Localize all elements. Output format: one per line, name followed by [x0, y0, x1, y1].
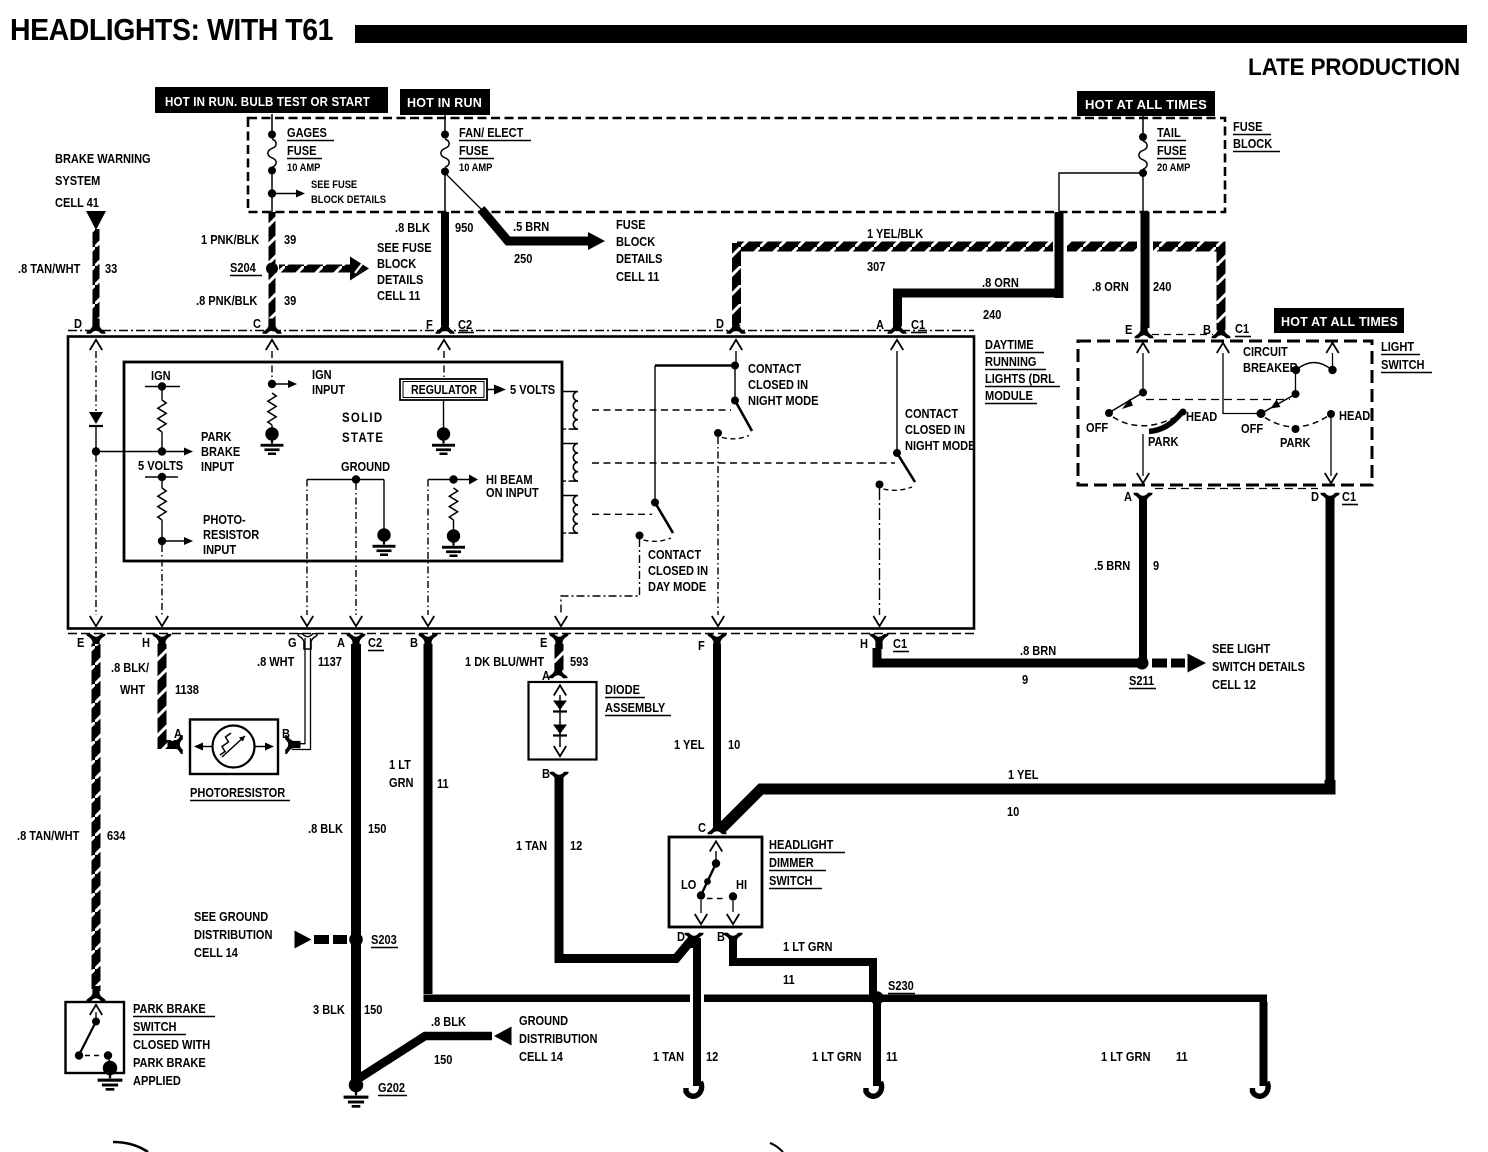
node: IGN	[158, 382, 166, 390]
resistor: park brake pull-up	[158, 400, 166, 432]
terminal B (dimmer bottom)	[723, 933, 742, 948]
svg-text:INPUT: INPUT	[312, 382, 346, 397]
arrow up at terminal C	[266, 340, 278, 350]
svg-text:39: 39	[284, 293, 297, 308]
svg-text:HEADLIGHTS: WITH T61: HEADLIGHTS: WITH T61	[10, 12, 333, 47]
svg-text:S204: S204	[230, 260, 256, 275]
label: 1 LT GRN 11 (right)	[1101, 1049, 1188, 1064]
svg-text:REGULATOR: REGULATOR	[411, 382, 477, 397]
svg-text:10 AMP: 10 AMP	[287, 162, 321, 174]
arrow down to terminal H	[156, 616, 168, 626]
terminal B (module bottom)	[418, 634, 437, 649]
wire: hi beam bus	[428, 479, 469, 481]
svg-text:DAY MODE: DAY MODE	[648, 579, 706, 594]
terminal A (diode assembly)	[548, 663, 567, 678]
svg-text:11: 11	[1176, 1049, 1188, 1064]
wire: D to junction	[735, 351, 737, 363]
splice S211	[1136, 657, 1149, 670]
svg-text:.5 BRN: .5 BRN	[513, 219, 549, 234]
node: ground	[352, 475, 360, 483]
svg-text:C: C	[253, 316, 261, 331]
svg-text:593: 593	[570, 654, 589, 669]
label: 1 YEL 10 (feed)	[1007, 767, 1038, 819]
svg-text:C: C	[698, 820, 706, 835]
arrow: regulator 5 volts out	[487, 385, 506, 395]
svg-text:OFF: OFF	[1086, 420, 1108, 435]
wire: regulator feed dash-dot	[443, 351, 445, 378]
arrow down to terminal H C1	[873, 616, 885, 626]
wire: 1 TAN 12 diode to dimmer D	[559, 778, 694, 959]
link: coil1 to night switch (dashed)	[592, 409, 731, 411]
wire: 1 LT GRN 11 below S230	[873, 1002, 881, 1086]
switch: night mode relay contact 1	[714, 397, 752, 439]
svg-text:ON INPUT: ON INPUT	[486, 485, 539, 500]
terminal G (module bottom, open)	[298, 634, 317, 649]
ground: park brake switch	[98, 1061, 123, 1091]
svg-text:HI: HI	[736, 877, 747, 892]
label: .8 ORN 240 (to A)	[982, 275, 1019, 322]
svg-text:SEE GROUND: SEE GROUND	[194, 909, 268, 924]
label: TAIL FUSE 20 AMP	[1157, 125, 1191, 174]
arrow down to terminal E	[90, 616, 102, 626]
label: 1 TAN 12 (down)	[653, 1049, 719, 1064]
svg-text:HEADLIGHT: HEADLIGHT	[769, 837, 834, 852]
svg-text:1 TAN: 1 TAN	[516, 838, 547, 853]
label: .8 ORN 240 (to E)	[1092, 279, 1172, 294]
svg-text:950: 950	[455, 220, 474, 235]
terminal C (module top)	[262, 319, 281, 334]
svg-text:11: 11	[437, 776, 449, 791]
svg-text:E: E	[77, 635, 84, 650]
svg-text:CLOSED IN: CLOSED IN	[748, 377, 808, 392]
wire: regulator to ground	[443, 400, 445, 429]
wire: dimmer B to S230	[733, 938, 873, 998]
svg-text:H: H	[142, 635, 150, 650]
label: PARK BRAKE SWITCH CLOSED WITH PARK BRAKE APPLIED	[133, 1001, 215, 1088]
svg-text:D: D	[1311, 489, 1319, 504]
wire: .8 BLK 950	[441, 212, 449, 326]
svg-text:B: B	[282, 726, 290, 741]
label: 1 YEL 10	[674, 737, 741, 752]
svg-text:CLOSED IN: CLOSED IN	[648, 563, 708, 578]
photoresistor box	[190, 720, 278, 775]
svg-text:CLOSED WITH: CLOSED WITH	[133, 1037, 210, 1052]
svg-text:IGN: IGN	[312, 367, 332, 382]
wire: night contact 1 to terminal F dash-dot	[717, 437, 719, 615]
svg-text:1 TAN: 1 TAN	[653, 1049, 684, 1064]
splice S203	[349, 933, 363, 947]
arrow: S204 striped arrow	[279, 257, 369, 281]
wire: 1 YEL/BLK 307 horizontal (striped)	[737, 242, 1053, 252]
wire: 1 YEL 10 feed from light switch	[721, 780, 1330, 829]
wire: dashed link A to D (light switch bottom)	[1155, 488, 1318, 490]
fuse: GAGES FUSE 10 AMP	[268, 139, 276, 167]
link: coil2 to night switch 2 (dashed)	[592, 462, 895, 464]
wire: circuit breaker up	[1332, 353, 1334, 370]
light switch dashed box	[1078, 341, 1372, 485]
svg-text:1 LT GRN: 1 LT GRN	[812, 1049, 861, 1064]
svg-text:LO: LO	[681, 877, 696, 892]
wire: D input dash-dot	[95, 351, 97, 411]
label: .5 BRN 250	[513, 219, 549, 266]
svg-text:BREAKER: BREAKER	[1243, 360, 1298, 375]
arrow: from brake warning system	[86, 211, 106, 230]
label: SEE LIGHT SWITCH DETAILS CELL 12	[1212, 641, 1305, 692]
svg-text:CIRCUIT: CIRCUIT	[1243, 344, 1288, 359]
svg-text:SEE FUSE: SEE FUSE	[377, 240, 432, 255]
terminal A C2 (module bottom)	[346, 634, 365, 649]
terminal D (DRL module top, yel/blk)	[726, 319, 745, 334]
label: 1 YEL/BLK 307	[867, 226, 923, 274]
svg-text:HEAD: HEAD	[1186, 409, 1218, 424]
wire: contact to circuit breaker	[1295, 371, 1297, 394]
wire: 1 LT GRN 11 from module B	[424, 644, 433, 994]
svg-text:.8 BRN: .8 BRN	[1020, 643, 1056, 658]
label: .8 BLK/WHT 1138	[111, 660, 199, 697]
terminal H C1 (module bottom)	[869, 634, 888, 649]
svg-text:634: 634	[107, 828, 126, 843]
svg-text:GAGES: GAGES	[287, 125, 327, 140]
svg-text:.5 BRN: .5 BRN	[1094, 558, 1130, 573]
svg-text:A: A	[1124, 489, 1132, 504]
wire: D line continues down dash-dot	[95, 455, 97, 615]
wire: junction to resistor	[96, 451, 162, 453]
svg-text:D: D	[677, 929, 685, 944]
wire: B to head wiper pivot	[1223, 353, 1257, 414]
wire: 1 DK BLU/WHT 593 (striped)	[555, 644, 564, 675]
ground: regulator	[432, 427, 455, 455]
svg-text:5 VOLTS: 5 VOLTS	[138, 458, 183, 473]
node: photoresistor input	[158, 537, 166, 545]
svg-text:HOT IN RUN: HOT IN RUN	[407, 96, 482, 110]
wire: fan/elect diagonal tap to .5 BRN	[447, 175, 484, 212]
node: hi beam input	[449, 475, 457, 483]
svg-text:33: 33	[105, 261, 118, 276]
wire: tail fuse down	[1142, 176, 1144, 212]
switch: park brake	[75, 1005, 112, 1062]
wire: .8 BRN 9 from H C1 to S211	[877, 648, 1137, 663]
label: .8 BRN 9	[1020, 643, 1056, 687]
node: park brake input	[158, 447, 166, 455]
svg-text:S230: S230	[888, 978, 914, 993]
arrow up from circuit breaker	[1326, 343, 1338, 353]
wire: ground bus	[307, 479, 384, 481]
wire: head contact down	[1330, 418, 1332, 476]
headlight dimmer switch box	[669, 837, 762, 927]
wire: diode to junction	[95, 426, 97, 449]
svg-text:.8 ORN: .8 ORN	[982, 275, 1019, 290]
terminal F (module bottom)	[707, 634, 726, 649]
svg-text:DIODE: DIODE	[605, 682, 640, 697]
svg-text:250: 250	[514, 251, 533, 266]
svg-text:SEE LIGHT: SEE LIGHT	[1212, 641, 1271, 656]
wire: ground to chassis	[383, 480, 385, 531]
wire: resistor to junction	[161, 432, 163, 452]
svg-text:9: 9	[1153, 558, 1159, 573]
svg-text:LIGHTS (DRL: LIGHTS (DRL	[985, 371, 1055, 386]
svg-text:BLOCK: BLOCK	[377, 256, 417, 271]
circuit breaker	[1292, 363, 1337, 375]
svg-text:FUSE: FUSE	[616, 217, 645, 232]
wire: park output down	[1142, 434, 1144, 476]
wire: .8 TAN/WHT 634 (striped)	[92, 644, 101, 991]
wire: 1 LT GRN 11 right drop	[1260, 1002, 1268, 1086]
wire: 1 PNK/BLK 39 (striped)	[269, 212, 276, 326]
FUSE BLOCK label	[1233, 119, 1280, 151]
terminal H (module bottom)	[152, 634, 171, 649]
svg-text:HOT IN RUN. BULB TEST OR START: HOT IN RUN. BULB TEST OR START	[165, 95, 370, 109]
svg-text:SWITCH DETAILS: SWITCH DETAILS	[1212, 659, 1305, 674]
svg-text:A: A	[337, 635, 345, 650]
terminal D (dimmer bottom)	[684, 933, 703, 948]
wire: junction to day switch feed	[655, 364, 735, 367]
svg-text:1 YEL: 1 YEL	[674, 737, 704, 752]
label: GAGES FUSE 10 AMP	[287, 125, 334, 174]
svg-text:240: 240	[983, 307, 1002, 322]
wire: .8 BLK/WHT 1138 (striped)	[158, 644, 167, 743]
svg-text:.8 TAN/WHT: .8 TAN/WHT	[17, 828, 80, 843]
wire: .8 WHT 1137 (hollow white wire)	[292, 638, 311, 750]
label: IGN INPUT	[312, 367, 346, 397]
svg-text:GRN: GRN	[389, 775, 414, 790]
arrow: see fuse block details	[275, 190, 305, 198]
svg-text:1137: 1137	[318, 654, 342, 669]
arrow: to fuse block details	[588, 232, 605, 250]
svg-text:1 YEL: 1 YEL	[1008, 767, 1038, 782]
wire: to photoresistor pull resistor	[161, 477, 163, 488]
svg-text:CONTACT: CONTACT	[905, 406, 959, 421]
hook: 1 TAN end	[686, 1082, 702, 1096]
label: LO / HI	[681, 877, 747, 892]
svg-text:SWITCH: SWITCH	[133, 1019, 177, 1034]
arrow: HI BEAM ON INPUT	[469, 475, 478, 485]
switch: dimmer LO/HI	[695, 841, 739, 924]
svg-text:CONTACT: CONTACT	[648, 547, 702, 562]
wire: ground to terminal G dash-dot	[306, 480, 308, 616]
terminal B (photoresistor)	[285, 735, 300, 754]
tag: HOT AT ALL TIMES (light switch)	[1274, 308, 1404, 333]
hook: right lt grn end	[1253, 1082, 1269, 1096]
label: .8 WHT 1137	[257, 654, 342, 669]
label: .8 PNK/BLK 39	[196, 293, 297, 308]
node: fan/elect fuse top	[441, 131, 449, 139]
node: fan/elect fuse bottom	[441, 168, 449, 176]
resistor: IGN input load	[268, 393, 276, 425]
label: CONTACT CLOSED IN NIGHT MODE (1)	[748, 361, 818, 408]
svg-text:OFF: OFF	[1241, 421, 1263, 436]
svg-text:RUNNING: RUNNING	[985, 354, 1036, 369]
arrow down to terminal B	[422, 616, 434, 626]
svg-text:B: B	[410, 635, 418, 650]
ground G202	[344, 1078, 369, 1108]
wire: resistor to ground	[271, 425, 273, 429]
coil: relay 2	[562, 444, 578, 482]
switch: park/head rotor (left)	[1105, 389, 1187, 432]
svg-text:CELL 12: CELL 12	[1212, 677, 1256, 692]
park brake switch box	[66, 1002, 125, 1073]
wire: ground to terminal A dash-dot	[355, 483, 357, 615]
arrow up at terminal A C1	[891, 340, 903, 350]
svg-text:39: 39	[284, 232, 297, 247]
svg-text:9: 9	[1022, 672, 1028, 687]
svg-text:BRAKE WARNING: BRAKE WARNING	[55, 151, 151, 166]
svg-text:1138: 1138	[175, 682, 199, 697]
svg-text:.8 PNK/BLK: .8 PNK/BLK	[196, 293, 258, 308]
label: .5 BRN 9	[1094, 558, 1159, 573]
svg-text:C1: C1	[893, 636, 907, 651]
terminal A (photoresistor)	[168, 735, 183, 754]
label: CONTACT CLOSED IN DAY MODE	[648, 547, 708, 594]
svg-text:FUSE: FUSE	[1157, 143, 1186, 158]
svg-text:APPLIED: APPLIED	[133, 1073, 181, 1088]
coil: relay 1	[562, 392, 578, 430]
svg-text:DAYTIME: DAYTIME	[985, 337, 1034, 352]
svg-text:NIGHT MODE: NIGHT MODE	[748, 393, 818, 408]
DRL module box	[68, 337, 974, 629]
terminal A (light switch bottom)	[1133, 493, 1152, 508]
wire: .5 BRN 250 thick diagonal	[481, 209, 591, 241]
arrow up at terminal E (light switch)	[1137, 343, 1149, 353]
svg-text:CONTACT: CONTACT	[748, 361, 802, 376]
svg-text:HOT AT ALL TIMES: HOT AT ALL TIMES	[1085, 98, 1207, 112]
splice S204	[266, 263, 278, 275]
svg-text:FAN/ ELECT: FAN/ ELECT	[459, 125, 524, 140]
svg-text:E: E	[540, 635, 547, 650]
svg-text:F: F	[698, 638, 705, 653]
wire: 1 YEL/BLK elbow down to terminal D	[732, 243, 741, 326]
arrow up at terminal F C2	[438, 340, 450, 350]
label: 1 LT GRN 11 (below S230)	[812, 1049, 898, 1064]
tag: HOT IN RUN. BULB TEST OR START	[155, 87, 388, 113]
svg-text:PARK: PARK	[201, 429, 232, 444]
label: GROUND DISTRIBUTION CELL 14	[519, 1013, 597, 1064]
label: FAN/ELECT FUSE 10 AMP	[459, 125, 531, 174]
wire: fan/elect fuse feed	[444, 114, 446, 132]
svg-text:G: G	[288, 635, 297, 650]
label: PHOTORESISTOR	[190, 785, 290, 800]
svg-text:.8 WHT: .8 WHT	[257, 654, 295, 669]
svg-text:FUSE: FUSE	[287, 143, 316, 158]
svg-text:SWITCH: SWITCH	[1381, 357, 1425, 372]
svg-text:LATE PRODUCTION: LATE PRODUCTION	[1248, 54, 1460, 81]
resistor: hi beam load	[449, 488, 457, 520]
wire: .5 BRN 9	[1139, 499, 1147, 659]
svg-text:.8 TAN/WHT: .8 TAN/WHT	[18, 261, 81, 276]
svg-text:.8 BLK: .8 BLK	[308, 821, 343, 836]
svg-text:BLOCK DETAILS: BLOCK DETAILS	[311, 194, 386, 206]
wire: tail fuse feed	[1142, 116, 1144, 135]
arrow up at terminal D (drl)	[730, 340, 742, 350]
svg-text:.8 BLK/: .8 BLK/	[111, 660, 150, 675]
label: 1 TAN 12 (diode)	[516, 838, 583, 853]
svg-text:HOT AT ALL TIMES: HOT AT ALL TIMES	[1281, 315, 1398, 329]
svg-text:IGN: IGN	[151, 368, 171, 383]
svg-text:11: 11	[783, 972, 795, 987]
wire: E to park wiper pivot	[1142, 353, 1144, 390]
label: DIODE ASSEMBLY	[605, 682, 671, 715]
svg-text:CLOSED IN: CLOSED IN	[905, 422, 965, 437]
arrow down to terminal F	[712, 616, 724, 626]
svg-text:BLOCK: BLOCK	[1233, 136, 1273, 151]
wire: 1 YEL 10 from module F	[713, 644, 721, 827]
svg-text:1 YEL/BLK: 1 YEL/BLK	[867, 226, 923, 241]
node: 5 volts	[158, 473, 166, 481]
label: PHOTO-RESISTOR INPUT	[203, 512, 259, 557]
ground: hi beam	[442, 529, 465, 557]
arrow: ground distribution (from)	[494, 1027, 512, 1046]
wire: gages fuse to splice	[271, 173, 273, 212]
terminal D (module top left)	[86, 319, 105, 334]
splice S230	[870, 991, 884, 1005]
svg-text:10: 10	[728, 737, 741, 752]
svg-text:B: B	[542, 766, 550, 781]
svg-text:1 LT: 1 LT	[389, 757, 411, 772]
wire: IGN to resistor	[161, 387, 163, 401]
svg-text:GROUND: GROUND	[519, 1013, 568, 1028]
terminal E (light switch top)	[1134, 323, 1153, 338]
label: .8 BLK 950	[395, 220, 474, 235]
label: HEADLIGHT DIMMER SWITCH	[769, 837, 845, 888]
wire: dashed link E to B (light switch top edge)	[1152, 334, 1213, 336]
terminal D C1 (light switch bottom)	[1320, 493, 1339, 508]
connector dashed line (module bottom)	[68, 633, 974, 635]
node: relay feed junction	[731, 362, 739, 370]
label: .8 BLK 150	[308, 821, 387, 836]
wire: .8 TAN/WHT 33 (striped)	[93, 229, 100, 326]
svg-text:PHOTORESISTOR: PHOTORESISTOR	[190, 785, 286, 800]
svg-text:C2: C2	[368, 635, 382, 650]
wire: tail fuse left branch	[1059, 173, 1140, 212]
svg-text:5 VOLTS: 5 VOLTS	[510, 382, 555, 397]
wire: 1 YEL from D C1	[1326, 499, 1335, 789]
svg-text:G202: G202	[378, 1080, 405, 1095]
svg-text:SWITCH: SWITCH	[769, 873, 813, 888]
coil: relay 3	[562, 496, 578, 534]
label: 3 BLK 150	[313, 1002, 383, 1017]
svg-text:10 AMP: 10 AMP	[459, 162, 493, 174]
svg-text:CELL 11: CELL 11	[377, 288, 421, 303]
wire: day switch riser	[654, 366, 656, 501]
svg-text:FUSE: FUSE	[459, 143, 488, 158]
label: BRAKE WARNING SYSTEM CELL 41	[55, 151, 151, 210]
label: HI BEAM ON INPUT	[486, 472, 539, 500]
svg-text:B: B	[717, 929, 725, 944]
svg-text:PHOTO-: PHOTO-	[203, 512, 246, 527]
tag: HOT AT ALL TIMES (fuse block)	[1077, 91, 1215, 116]
svg-text:MODULE: MODULE	[985, 388, 1033, 403]
ground: module internal	[373, 528, 396, 556]
svg-text:1 PNK/BLK: 1 PNK/BLK	[201, 232, 260, 247]
fuse: TAIL FUSE 20 AMP	[1139, 141, 1147, 169]
node: gages fuse top	[268, 131, 276, 139]
svg-text:WHT: WHT	[120, 682, 146, 697]
wire: day contact to terminal E	[561, 539, 640, 615]
hook: lt grn end	[866, 1082, 882, 1096]
svg-text:12: 12	[706, 1049, 719, 1064]
wire: IGN input dash-dot	[271, 351, 273, 381]
svg-text:150: 150	[364, 1002, 383, 1017]
label: LIGHT SWITCH	[1381, 339, 1432, 372]
wire: .8 ORN 240 horizontal to A	[897, 289, 1059, 298]
svg-text:.8 BLK: .8 BLK	[431, 1014, 466, 1029]
wire: 1 YEL/BLK right elbow down to B C1	[1215, 242, 1226, 252]
svg-text:SOLID: SOLID	[342, 410, 383, 425]
label: 1 LT GRN 11 (dimmer B)	[783, 939, 832, 987]
link: coil3 to day switch (dashed)	[592, 513, 652, 515]
label: .8 TAN/WHT 634	[17, 828, 126, 843]
svg-text:1 DK BLU/WHT: 1 DK BLU/WHT	[465, 654, 545, 669]
svg-text:INPUT: INPUT	[203, 542, 237, 557]
